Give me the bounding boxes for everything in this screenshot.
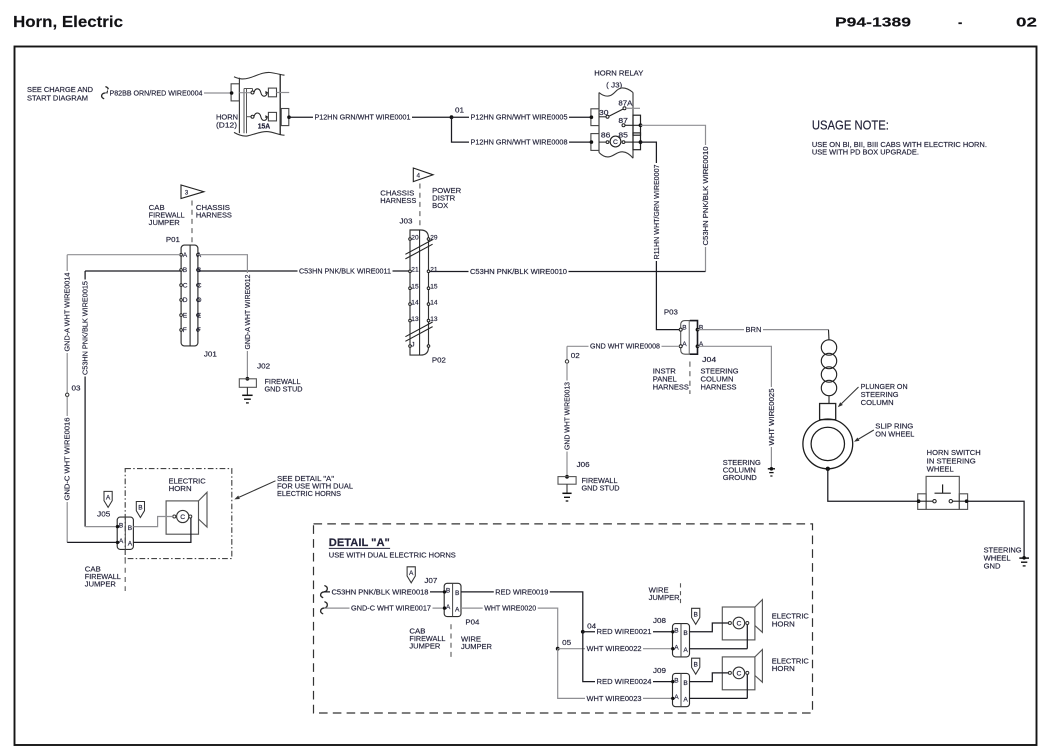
node at slip ring bottom — [826, 467, 830, 471]
svg-text:USE WITH DUAL ELECTRIC HORNS: USE WITH DUAL ELECTRIC HORNS — [329, 551, 456, 560]
wire horn coil to J05 A — [133, 518, 191, 542]
svg-text:-: - — [958, 15, 962, 30]
wire C53HN PNK/BLK WIRE0010 horizontal run — [427, 271, 705, 273]
svg-text:B: B — [119, 522, 124, 529]
svg-text:WHT WIRE0025: WHT WIRE0025 — [767, 389, 776, 446]
svg-text:WHT WIRE0022: WHT WIRE0022 — [587, 644, 642, 653]
svg-text:RED WIRE0021: RED WIRE0021 — [597, 627, 652, 636]
svg-text:4: 4 — [417, 173, 421, 180]
svg-text:RED WIRE0024: RED WIRE0024 — [597, 677, 652, 686]
svg-text:HORN RELAY: HORN RELAY — [594, 69, 643, 78]
horn switch in steering wheel — [926, 476, 959, 509]
off-page curl symbol — [102, 87, 109, 99]
svg-text:ELECTRIC HORNS: ELECTRIC HORNS — [277, 489, 341, 498]
svg-text:WHT WIRE0023: WHT WIRE0023 — [587, 694, 642, 703]
svg-text:A: A — [119, 538, 124, 545]
svg-text:(D12): (D12) — [216, 121, 237, 130]
svg-text:B: B — [197, 267, 202, 274]
ground symbol J06 — [562, 492, 571, 494]
svg-text:A: A — [699, 341, 704, 348]
svg-text:J07: J07 — [424, 576, 437, 585]
wire GND WHT WIRE0008 — [567, 345, 679, 347]
shield callout A at J07 — [407, 567, 415, 583]
svg-text:JUMPER: JUMPER — [85, 580, 116, 589]
connector J05 — [117, 517, 133, 549]
svg-text:A: A — [683, 697, 688, 704]
svg-text:15: 15 — [430, 284, 438, 291]
wire C53HN PNK/BLK WIRE0018 — [324, 591, 444, 593]
wire J09 B to horn coil — [690, 673, 729, 682]
svg-text:GND WHT WIRE0013: GND WHT WIRE0013 — [562, 382, 571, 450]
node 02 — [565, 360, 568, 363]
svg-text:HORN: HORN — [772, 619, 795, 628]
output tab — [281, 109, 289, 126]
svg-text:13: 13 — [411, 316, 419, 323]
svg-text:01: 01 — [455, 106, 464, 115]
svg-text:A: A — [682, 341, 687, 348]
wire P12HN GRN/WHT WIRE0001 — [289, 116, 452, 118]
horn cone single — [199, 492, 208, 527]
svg-text:B: B — [674, 677, 679, 684]
svg-text:C53HN PNK/BLK WIRE0011: C53HN PNK/BLK WIRE0011 — [299, 266, 391, 275]
svg-text:86: 86 — [601, 131, 611, 140]
svg-text:GND-A WHT WIRE0012: GND-A WHT WIRE0012 — [243, 275, 252, 350]
svg-text:GND STUD: GND STUD — [582, 484, 620, 493]
svg-text:B: B — [683, 680, 688, 687]
wire RED WIRE0019 — [461, 592, 583, 632]
svg-text:START DIAGRAM: START DIAGRAM — [27, 93, 88, 102]
wire GND-A WHT WIRE0012 — [198, 255, 248, 379]
svg-text:HARNESS: HARNESS — [196, 211, 232, 220]
pin 87A stub — [626, 107, 640, 109]
fuse HORN D12 15A lower element — [247, 116, 252, 118]
node 03 — [66, 393, 69, 396]
svg-text:05: 05 — [562, 638, 571, 647]
leader arrow to plunger — [842, 387, 859, 404]
relay tab pin 85 — [633, 133, 641, 150]
fuse upper output stub — [277, 92, 290, 94]
wire GND-C WHT WIRE0017 — [324, 607, 444, 609]
svg-text:A: A — [183, 252, 188, 259]
harness divider dashes below callout 3 — [191, 201, 193, 245]
relay switch blade 30-87A — [599, 116, 606, 118]
connector J03/P02 body — [410, 230, 429, 355]
electric horn dual 1 — [722, 607, 755, 640]
steering wheel ground symbol — [1022, 556, 1026, 560]
svg-text:A: A — [197, 252, 202, 259]
wire P82BB ORN/RED WIRE0004 — [105, 92, 231, 94]
svg-text:87A: 87A — [618, 98, 632, 107]
pushbutton plunger symbol — [942, 484, 944, 493]
harness divider dashes below P03/J04 — [689, 362, 691, 395]
svg-text:B: B — [674, 628, 679, 635]
svg-text:A: A — [455, 606, 460, 613]
svg-text:A: A — [674, 645, 679, 652]
svg-text:A: A — [683, 647, 688, 654]
connector J07/P04 — [444, 583, 461, 616]
svg-text:A: A — [409, 570, 414, 577]
wire R11HN WHT/GRN WIRE0007 from pin 85 — [641, 142, 680, 330]
svg-text:C53HN PNK/BLK WIRE0018: C53HN PNK/BLK WIRE0018 — [332, 587, 429, 596]
svg-text:J08: J08 — [653, 616, 666, 625]
wire slip ring to horn switch — [828, 469, 918, 501]
wire WHT WIRE0022 — [558, 648, 673, 650]
wire RED WIRE0024 — [583, 632, 673, 682]
firewall ground stud J06 — [565, 475, 569, 479]
svg-text:A: A — [128, 541, 133, 548]
svg-text:B: B — [699, 324, 704, 331]
wire BRN — [698, 329, 829, 331]
pin 87 wire — [622, 124, 625, 127]
wire GND-C WHT WIRE0016 — [66, 397, 68, 543]
electric horn single — [166, 501, 198, 534]
svg-text:Horn, Electric: Horn, Electric — [13, 14, 123, 31]
steering column ground symbol — [770, 467, 774, 471]
coil on steering column — [828, 330, 831, 341]
shield callout B at first dual horn — [692, 608, 700, 624]
leader arrow to detail box — [239, 481, 275, 497]
svg-text:J: J — [411, 341, 414, 348]
svg-text:JUMPER: JUMPER — [461, 642, 492, 651]
svg-text:B: B — [128, 525, 133, 532]
svg-text:GROUND: GROUND — [723, 473, 757, 482]
svg-text:BRN: BRN — [746, 325, 762, 334]
wire horn coil to J09 A — [746, 674, 748, 698]
relay tab pin 30 — [591, 109, 599, 126]
wire C53HN PNK/BLK WIRE0010 vertical from pin 87 — [641, 125, 706, 271]
wire WHT WIRE0025 — [698, 346, 772, 469]
dashed divider at P04 — [450, 624, 452, 658]
svg-text:WHEEL: WHEEL — [927, 465, 954, 474]
svg-text:C: C — [183, 282, 188, 289]
svg-text:P02: P02 — [432, 355, 446, 364]
triangle callout 4 — [413, 168, 433, 182]
relay tab pin 87 — [633, 115, 641, 135]
node 05 — [556, 647, 560, 651]
svg-text:20: 20 — [411, 234, 419, 241]
svg-text:21: 21 — [411, 267, 419, 274]
svg-text:J04: J04 — [702, 355, 716, 364]
svg-text:C53HN PNK/BLK WIRE0010: C53HN PNK/BLK WIRE0010 — [470, 267, 567, 276]
svg-text:P82BB ORN/RED WIRE0004: P82BB ORN/RED WIRE0004 — [110, 88, 203, 97]
svg-text:B: B — [682, 324, 687, 331]
bus bar — [243, 89, 245, 134]
svg-text:15A: 15A — [258, 121, 271, 130]
harness divider dashes below callout 4 — [419, 184, 421, 227]
svg-text:14: 14 — [411, 300, 419, 307]
horn cone dual 2 — [755, 650, 763, 683]
electric horn dual 2 — [722, 657, 755, 690]
svg-text:J05: J05 — [97, 510, 110, 519]
svg-text:B: B — [138, 505, 143, 512]
svg-text:A: A — [106, 495, 111, 502]
svg-text:F: F — [183, 327, 187, 334]
svg-text:A: A — [446, 604, 451, 611]
svg-text:P94-1389: P94-1389 — [835, 15, 911, 30]
wire P12HN GRN/WHT WIRE0008 — [452, 117, 591, 142]
dashed divider below J05 — [124, 559, 126, 591]
relay body torn-edge outline — [599, 88, 633, 96]
svg-text:HARNESS: HARNESS — [653, 382, 689, 391]
svg-text:C: C — [197, 282, 202, 289]
svg-text:JUMPER: JUMPER — [409, 642, 440, 651]
svg-text:GND WHT WIRE0008: GND WHT WIRE0008 — [590, 342, 660, 351]
wire horn switch to steering wheel ground — [968, 501, 1025, 557]
svg-text:E: E — [197, 312, 202, 319]
svg-text:GND STUD: GND STUD — [265, 384, 303, 393]
svg-text:HARNESS: HARNESS — [380, 196, 416, 205]
svg-text:J01: J01 — [204, 350, 217, 359]
connector J08 — [673, 624, 690, 657]
fuse upper element — [251, 91, 254, 94]
svg-text:R11HN WHT/GRN WIRE0007: R11HN WHT/GRN WIRE0007 — [652, 165, 661, 260]
relay coil C — [599, 141, 606, 143]
wire J08 B to horn coil — [690, 623, 729, 632]
svg-text:P01: P01 — [166, 235, 180, 244]
dash-dot detail boundary box — [125, 469, 232, 559]
svg-text:JUMPER: JUMPER — [149, 218, 180, 227]
shield callout B at horn — [136, 502, 144, 518]
svg-text:F: F — [197, 327, 201, 334]
svg-text:03: 03 — [72, 384, 81, 393]
ground symbol J02 — [242, 394, 252, 396]
svg-text:USAGE NOTE:: USAGE NOTE: — [812, 118, 889, 132]
off-page curl wire0018 — [321, 586, 328, 598]
slip ring on wheel — [803, 419, 853, 469]
triangle callout 3 — [181, 185, 204, 199]
svg-text:J02: J02 — [257, 361, 270, 370]
svg-text:B: B — [183, 267, 188, 274]
svg-text:COLUMN: COLUMN — [861, 398, 894, 407]
connector J03/P02 pins — [409, 238, 412, 241]
svg-text:ON WHEEL: ON WHEEL — [875, 430, 914, 439]
connector P03/J04 pins — [679, 328, 682, 331]
svg-text:C53HN PNK/BLK WIRE0015: C53HN PNK/BLK WIRE0015 — [81, 281, 90, 375]
plunger on steering column — [820, 404, 836, 420]
power distribution panel torn-edge outline — [234, 72, 285, 79]
svg-text:B: B — [683, 630, 688, 637]
svg-text:02: 02 — [1016, 15, 1037, 30]
connector J03 break slashes lower — [405, 327, 432, 342]
wire WHT WIRE0023 — [558, 649, 673, 699]
svg-text:04: 04 — [587, 622, 596, 631]
svg-text:E: E — [183, 312, 188, 319]
svg-text:WHT WIRE0020: WHT WIRE0020 — [484, 604, 536, 613]
svg-text:J03: J03 — [400, 217, 413, 226]
svg-text:C: C — [613, 139, 618, 146]
svg-text:13: 13 — [430, 316, 438, 323]
wire RED WIRE0021 — [583, 631, 673, 633]
svg-text:GND-C WHT WIRE0017: GND-C WHT WIRE0017 — [351, 604, 431, 613]
svg-text:B: B — [693, 661, 698, 668]
svg-text:P12HN GRN/WHT WIRE0005: P12HN GRN/WHT WIRE0005 — [471, 113, 568, 122]
off-page curl wire0017 — [321, 602, 328, 614]
svg-text:B: B — [455, 590, 460, 597]
wire J05 B to horn coil — [133, 517, 172, 527]
connector P01/J01 body — [181, 245, 198, 346]
wire GND WHT WIRE0013 — [566, 363, 568, 476]
shield callout B at second dual horn — [692, 658, 700, 674]
connector P01/J01 pins A-F — [180, 253, 183, 256]
svg-text:3: 3 — [185, 189, 189, 196]
svg-text:14: 14 — [430, 300, 438, 307]
svg-text:P03: P03 — [664, 308, 678, 317]
node 04 — [581, 630, 585, 634]
wire GND-A WHT WIRE0014 — [67, 254, 181, 256]
svg-text:21: 21 — [430, 267, 438, 274]
connector J03 break slashes upper — [405, 244, 432, 259]
svg-text:D: D — [183, 297, 188, 304]
svg-text:P12HN GRN/WHT WIRE0008: P12HN GRN/WHT WIRE0008 — [471, 138, 568, 147]
horn cone dual 1 — [755, 600, 763, 633]
svg-text:C53HN PNK/BLK WIRE0010: C53HN PNK/BLK WIRE0010 — [701, 147, 710, 246]
svg-text:P04: P04 — [465, 618, 479, 627]
node 01 — [450, 115, 454, 119]
svg-text:JUMPER: JUMPER — [649, 593, 680, 602]
svg-text:P12HN GRN/WHT WIRE0001: P12HN GRN/WHT WIRE0001 — [315, 113, 411, 122]
svg-text:USE WITH PD BOX UPGRADE.: USE WITH PD BOX UPGRADE. — [812, 147, 919, 156]
leader arrow to slip ring — [858, 430, 873, 439]
wire C53HN PNK/BLK WIRE0011 — [198, 270, 411, 272]
svg-text:D: D — [197, 297, 202, 304]
svg-text:C: C — [180, 514, 185, 521]
svg-text:GND-A WHT WIRE0014: GND-A WHT WIRE0014 — [63, 273, 72, 352]
svg-text:15: 15 — [411, 284, 419, 291]
svg-text:HORN: HORN — [169, 484, 192, 493]
pin 85 wire — [625, 141, 641, 143]
svg-text:C: C — [736, 621, 741, 628]
svg-text:C: C — [736, 670, 741, 677]
relay tab pin 86 — [591, 134, 599, 151]
svg-text:02: 02 — [571, 351, 580, 360]
wire C53HN PNK/BLK WIRE0015 — [85, 270, 181, 272]
svg-text:30: 30 — [599, 108, 609, 117]
detail A dashed box — [314, 524, 813, 713]
wire WHT WIRE0020 — [461, 608, 558, 649]
shield callout A at J05 — [104, 491, 112, 507]
dashed divider at J08 — [680, 583, 682, 604]
svg-text:HARNESS: HARNESS — [701, 382, 737, 391]
svg-text:HORN: HORN — [772, 664, 795, 673]
svg-text:B: B — [693, 611, 698, 618]
svg-text:RED WIRE0019: RED WIRE0019 — [495, 587, 548, 596]
svg-text:A: A — [674, 694, 679, 701]
svg-text:GND-C WHT WIRE0016: GND-C WHT WIRE0016 — [63, 418, 72, 501]
svg-text:B: B — [446, 588, 451, 595]
svg-text:DETAIL "A": DETAIL "A" — [329, 537, 390, 549]
firewall ground stud J02 — [246, 377, 250, 381]
svg-text:J06: J06 — [577, 460, 590, 469]
wire P12HN GRN/WHT WIRE0005 — [452, 116, 591, 118]
svg-text:J09: J09 — [653, 666, 666, 675]
connector J09 — [673, 673, 690, 706]
wire horn coil to J08 A — [746, 625, 748, 649]
connector P03/J04 body — [681, 321, 698, 355]
input tab — [231, 84, 239, 101]
svg-text:GND: GND — [984, 562, 1001, 571]
svg-text:BOX: BOX — [432, 201, 448, 210]
